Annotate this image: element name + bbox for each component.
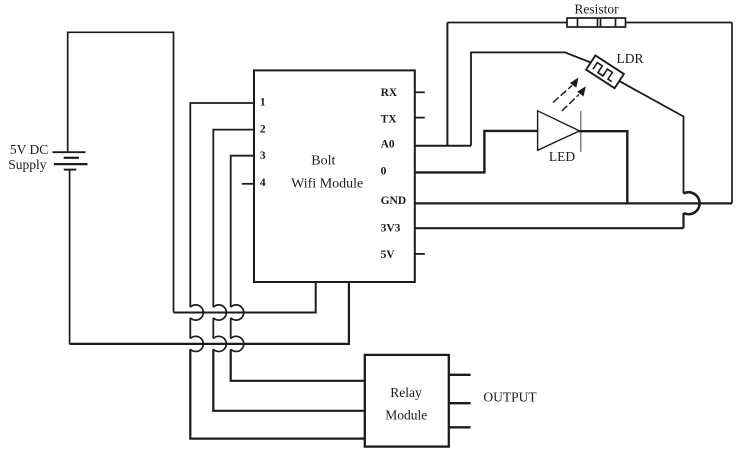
svg-text:4: 4 [260,177,266,189]
svg-text:5V: 5V [381,249,396,261]
svg-text:Supply: Supply [8,157,47,172]
svg-text:GND: GND [381,195,407,207]
svg-text:A0: A0 [381,139,395,151]
svg-text:RX: RX [381,87,398,99]
svg-text:3V3: 3V3 [381,222,401,234]
svg-text:5V DC: 5V DC [10,142,48,157]
svg-text:Bolt: Bolt [311,154,335,169]
svg-text:OUTPUT: OUTPUT [483,389,537,404]
svg-text:LED: LED [549,149,575,164]
svg-text:Resistor: Resistor [574,2,619,17]
svg-text:0: 0 [381,166,387,178]
svg-text:3: 3 [260,150,266,162]
svg-text:Wifi Module: Wifi Module [291,177,363,192]
svg-text:LDR: LDR [617,51,644,66]
svg-text:TX: TX [381,113,398,125]
svg-text:Module: Module [385,407,427,422]
svg-text:Relay: Relay [390,385,422,400]
svg-text:1: 1 [260,97,266,109]
svg-text:2: 2 [260,124,266,136]
